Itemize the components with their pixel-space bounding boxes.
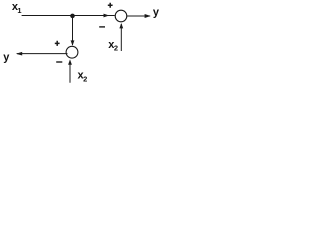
wire x2 into U1 from below (120, 24, 122, 51)
svg-text:2: 2 (83, 74, 87, 83)
plus sign at U1 input (108, 3, 113, 8)
plus sign at U2 input (55, 41, 60, 46)
arrowhead down into U2 (71, 40, 75, 46)
wire x2 into U2 from below (69, 61, 71, 83)
svg-text:1: 1 (17, 6, 21, 15)
svg-text:2: 2 (114, 43, 118, 52)
svg-text:y: y (3, 52, 10, 64)
minus sign at U2 input (56, 61, 62, 63)
wire U2 output to y (left) (17, 53, 68, 55)
wire x1 to top summing junction (22, 15, 115, 17)
svg-text:y: y (153, 7, 160, 19)
wire U1 output to y (127, 15, 150, 17)
wire junction dot down to U2 (72, 16, 74, 45)
junction dot on x1 wire (70, 14, 75, 19)
summing junction U1 (top) (115, 10, 127, 22)
arrowhead at bottom y output (left) (16, 52, 22, 56)
arrowhead up into U1 (119, 23, 123, 28)
minus sign at U1 input (99, 26, 105, 28)
arrowhead into top summing junction (right) (104, 14, 110, 18)
arrowhead at top y output (145, 14, 151, 18)
summing junction U2 (bottom) (66, 46, 78, 58)
arrowhead up into U2 (68, 59, 72, 64)
